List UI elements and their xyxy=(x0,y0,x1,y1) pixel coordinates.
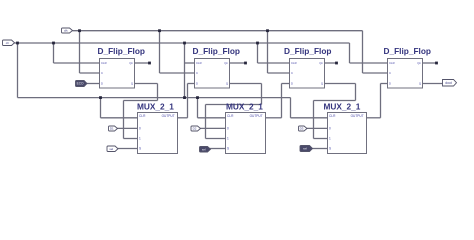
svg-text:D_Flip_Flop: D_Flip_Flop xyxy=(98,46,145,56)
svg-text:Qn: Qn xyxy=(417,61,421,65)
svg-text:D_Flip_Flop: D_Flip_Flop xyxy=(284,46,331,56)
wire D1 to U5 IN0 xyxy=(117,127,138,129)
wire D3 to U7 IN0 xyxy=(306,127,328,129)
svg-text:Qn: Qn xyxy=(319,61,323,65)
wire U1 Qn stub xyxy=(135,62,150,64)
mux U7 MUX_2_1 xyxy=(324,102,367,154)
wire U3 Q to U7 IN1 xyxy=(325,83,356,85)
node U1 Qn endpoint dot xyxy=(148,62,151,65)
junction clk net at U3 drop xyxy=(266,29,269,32)
svg-text:0: 0 xyxy=(139,127,141,131)
junction clr rail at U5 drop xyxy=(99,96,102,99)
svg-text:MUX_2_1: MUX_2_1 xyxy=(137,102,174,112)
svg-text:1: 1 xyxy=(227,137,229,141)
svg-text:CLR: CLR xyxy=(196,61,202,65)
wire U4 Q to dout xyxy=(423,83,444,85)
wire U4 Qn stub xyxy=(423,62,437,64)
wire U2 Qn stub xyxy=(230,62,246,64)
svg-text:clr: clr xyxy=(6,41,9,45)
wire sel to U6 SEL xyxy=(210,148,226,150)
flip-flop U2 D_Flip_Flop xyxy=(193,46,240,88)
junction clr net at rail drop xyxy=(16,42,19,45)
svg-text:Qn: Qn xyxy=(224,61,228,65)
svg-text:clk: clk xyxy=(64,29,68,33)
svg-text:sel: sel xyxy=(303,147,307,151)
flip-flop U4 D_Flip_Flop xyxy=(384,46,431,88)
svg-text:D2: D2 xyxy=(193,127,197,131)
wire rail drop to U7 CLR xyxy=(290,98,292,118)
junction clr net at U2 drop xyxy=(183,42,186,45)
svg-text:0: 0 xyxy=(329,127,331,131)
wire U7 OUTPUT to U4 D xyxy=(367,117,381,119)
wire clk drop to U3 CLK xyxy=(267,31,269,73)
svg-text:MUX_2_1: MUX_2_1 xyxy=(226,102,263,112)
node U4 Qn endpoint dot xyxy=(435,62,438,65)
wire clr lower rail xyxy=(18,97,291,99)
svg-text:C: C xyxy=(389,71,391,75)
input port sel for U6 xyxy=(200,147,211,153)
input port clk xyxy=(62,28,73,33)
svg-text:0: 0 xyxy=(227,127,229,131)
svg-text:1: 1 xyxy=(139,137,141,141)
svg-text:CLR: CLR xyxy=(329,114,336,118)
svg-text:OUTPUT: OUTPUT xyxy=(162,114,175,118)
svg-text:S: S xyxy=(227,147,229,151)
flip-flop U3 D_Flip_Flop xyxy=(284,46,331,88)
svg-text:CLR: CLR xyxy=(139,114,146,118)
input port ECO to U1 D xyxy=(76,81,88,87)
wire rail drop to U5 CLR xyxy=(100,98,102,118)
wire clk drop to U2 CLK xyxy=(159,31,161,73)
junction clr net at U1 drop xyxy=(52,42,55,45)
wire U5 OUTPUT to U2 D xyxy=(178,117,188,119)
wire D2 to U6 IN0 xyxy=(200,127,226,129)
input port D2 xyxy=(191,126,201,131)
junction clr rail at U6 drop xyxy=(196,96,199,99)
input port D1 xyxy=(109,126,118,131)
wire ECO input to U1 D xyxy=(87,83,100,85)
svg-text:D: D xyxy=(196,82,198,86)
wire clk horizontal trunk xyxy=(73,30,363,32)
svg-text:C: C xyxy=(291,71,293,75)
svg-text:D: D xyxy=(291,82,293,86)
wire sel to U7 SEL xyxy=(312,148,328,150)
wire clr drop to lower rail xyxy=(17,43,19,98)
svg-text:C: C xyxy=(101,71,103,75)
wire clr drop to U4 CLR xyxy=(349,43,351,63)
flip-flop U1 D_Flip_Flop xyxy=(98,46,145,88)
wire U1 Q to U5 IN1 xyxy=(135,83,158,85)
mux U6 MUX_2_1 xyxy=(226,102,266,154)
svg-text:MUX_2_1: MUX_2_1 xyxy=(324,102,361,112)
svg-text:sel: sel xyxy=(109,147,113,151)
svg-text:ECO: ECO xyxy=(77,82,84,86)
svg-text:OUTPUT: OUTPUT xyxy=(351,114,364,118)
wire clk drop to U4 CLK xyxy=(362,31,364,73)
svg-text:D: D xyxy=(389,82,391,86)
svg-text:S: S xyxy=(329,147,331,151)
svg-text:C: C xyxy=(196,71,198,75)
wire U6 OUTPUT to U3 D xyxy=(266,117,282,119)
wire clr horizontal trunk xyxy=(12,42,350,44)
wire U2 Q to U6 IN1 xyxy=(230,83,262,85)
svg-text:Qn: Qn xyxy=(129,61,133,65)
input port sel for U7 xyxy=(300,146,313,152)
input port D3 xyxy=(299,126,308,131)
junction clk net at U2 drop xyxy=(158,29,161,32)
node U3 Qn endpoint dot xyxy=(335,62,338,65)
junction clr rail at trunk tie xyxy=(183,96,186,99)
svg-text:CLR: CLR xyxy=(389,61,395,65)
wire clr drop to U1 CLR xyxy=(53,43,55,63)
svg-text:D_Flip_Flop: D_Flip_Flop xyxy=(193,46,240,56)
svg-text:OUTPUT: OUTPUT xyxy=(250,114,263,118)
wire clr drop to U2 CLR xyxy=(184,43,186,98)
svg-text:CLR: CLR xyxy=(227,114,234,118)
svg-text:dout: dout xyxy=(445,81,452,85)
junction clr net at U3 drop xyxy=(256,42,259,45)
input port clr xyxy=(3,40,15,46)
svg-text:CLR: CLR xyxy=(101,61,107,65)
output port dout from U4 Q xyxy=(443,80,457,87)
svg-text:D1: D1 xyxy=(110,127,114,131)
wire sel to U5 SEL xyxy=(117,148,138,150)
svg-text:D3: D3 xyxy=(300,127,304,131)
svg-text:S: S xyxy=(139,147,141,151)
svg-text:D: D xyxy=(101,82,103,86)
node U2 Qn endpoint dot xyxy=(244,62,247,65)
wire clk drop to U1 CLK xyxy=(79,31,81,73)
svg-text:1: 1 xyxy=(329,137,331,141)
junction clk net at U1 drop xyxy=(78,29,81,32)
mux U5 MUX_2_1 xyxy=(137,102,178,154)
input port sel for U5 xyxy=(107,146,118,152)
wire rail drop to U6 CLR xyxy=(197,98,199,118)
wire clr drop to U3 CLR xyxy=(257,43,259,63)
svg-text:sel: sel xyxy=(202,147,206,151)
svg-text:CLR: CLR xyxy=(291,61,297,65)
svg-text:D_Flip_Flop: D_Flip_Flop xyxy=(384,46,431,56)
wire U3 Qn stub xyxy=(325,62,337,64)
